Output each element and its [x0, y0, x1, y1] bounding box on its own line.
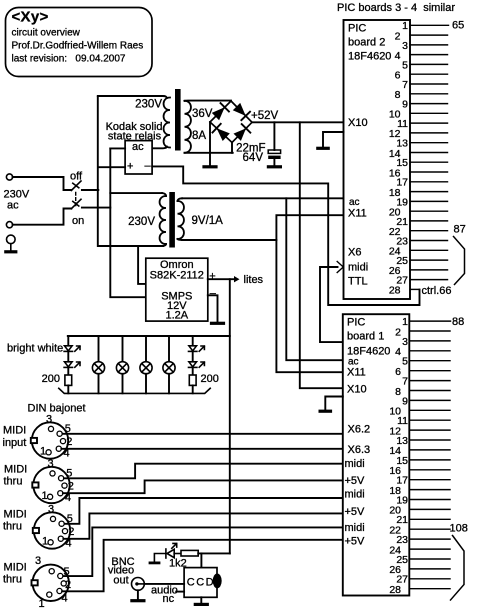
pin 17 line — [409, 479, 450, 481]
pin 3 line — [410, 44, 448, 46]
bracket pins 23-27 (board1) — [451, 536, 465, 601]
pin 1 line — [409, 320, 450, 322]
wire: branch T2 primary top — [110, 192, 162, 194]
svg-text:+5V: +5V — [345, 506, 366, 518]
svg-text:8: 8 — [395, 89, 401, 101]
pin 14 line — [409, 449, 450, 451]
pin 26 line — [409, 568, 450, 570]
wire: relay-ac-left rail (x=110) down to Omron input — [110, 148, 146, 297]
net: T2 sec bottom to board2 and board1 X11 (x=276) — [276, 215, 343, 372]
pin 16 line — [410, 171, 448, 173]
svg-text:CCD: CCD — [187, 577, 215, 589]
svg-text:2: 2 — [68, 526, 74, 538]
svg-text:–: – — [210, 288, 217, 300]
svg-text:ctrl.66: ctrl.66 — [422, 285, 452, 297]
ground under bridge — [204, 165, 216, 168]
svg-text:+52V: +52V — [251, 110, 279, 122]
DIN bajonet bracket — [59, 388, 210, 393]
svg-text:28: 28 — [389, 584, 401, 596]
resistor R3 1k2 — [181, 550, 198, 556]
resistor R1 200 — [65, 375, 72, 385]
svg-text:18F4620: 18F4620 — [348, 51, 391, 63]
svg-text:X10: X10 — [347, 384, 367, 396]
relay K1 box — [125, 141, 152, 174]
pin 15 line — [410, 161, 448, 163]
svg-text:4: 4 — [395, 50, 401, 62]
pin 25 line — [409, 558, 450, 560]
svg-text:230V: 230V — [135, 99, 162, 111]
pin 9 line — [410, 103, 448, 105]
pin 22 line — [409, 528, 450, 530]
pin 11 line — [409, 419, 450, 421]
connector J1 MIDI input (DIN-5) — [31, 414, 73, 460]
lamp L1 — [92, 336, 104, 393]
board1 ground stub — [325, 397, 343, 411]
svg-text:PIC: PIC — [347, 317, 365, 329]
pin 27 line — [409, 578, 450, 580]
wire: SMPS + output to lites arrow — [208, 278, 234, 280]
svg-text:+5V: +5V — [345, 475, 366, 487]
svg-text:87: 87 — [454, 224, 466, 236]
pin 1 line — [410, 24, 449, 26]
bridge diode D4 (bottom->right) — [234, 128, 247, 141]
svg-text:3: 3 — [46, 414, 52, 426]
svg-text:out: out — [113, 575, 128, 587]
lamp L2 — [116, 336, 128, 393]
svg-text:3: 3 — [48, 458, 54, 470]
pin 13 line — [409, 439, 450, 441]
transformer T1 primary winding 230V — [164, 98, 170, 148]
PIC board 1 (U1 18F4620) — [343, 314, 410, 595]
svg-text:8: 8 — [395, 386, 401, 398]
LED string right: wire — [192, 336, 194, 346]
pin 14 line — [410, 152, 448, 154]
wire: T1 secondary bottom to bridge AC2 — [185, 152, 233, 154]
svg-text:108: 108 — [450, 523, 468, 535]
svg-text:thru: thru — [4, 476, 23, 488]
svg-text:ac: ac — [132, 141, 144, 153]
pin 28 line — [410, 288, 420, 290]
pin 8 line — [409, 390, 450, 392]
pin 3 line — [409, 340, 450, 342]
svg-text:X6: X6 — [348, 247, 361, 259]
pin 2 line — [409, 330, 450, 332]
svg-text:6: 6 — [395, 366, 401, 378]
svg-text:8A: 8A — [192, 130, 206, 142]
svg-text:7: 7 — [402, 376, 408, 388]
wire: pole1 contact to phase rail — [82, 189, 98, 191]
svg-text:PIC boards 3 - 4 similar: PIC boards 3 - 4 similar — [337, 2, 455, 14]
svg-text:<Xy>: <Xy> — [12, 9, 49, 26]
svg-text:bright white: bright white — [7, 343, 63, 355]
pin 15 line — [409, 459, 450, 461]
svg-text:3: 3 — [48, 504, 54, 516]
wire: J3 pin5 to board1 midi — [65, 498, 343, 524]
svg-text:MIDI: MIDI — [4, 464, 27, 476]
bridge diode D2 (top->right) — [233, 103, 246, 116]
wire: bridge AC2 corner down — [231, 143, 233, 153]
wire: branch to Omron upper input — [138, 246, 146, 284]
wire: branch down to CCD top — [200, 553, 202, 567]
pin 10 line — [410, 112, 448, 114]
pin 23 line — [409, 538, 450, 540]
svg-text:Prof.Dr.Godfried-Willem Raes: Prof.Dr.Godfried-Willem Raes — [12, 41, 144, 52]
svg-text:64V: 64V — [243, 152, 264, 164]
svg-text:X6.2: X6.2 — [348, 424, 371, 436]
switch S1 pole 1 (off) — [71, 181, 81, 191]
svg-text:1: 1 — [42, 536, 48, 548]
svg-text:thru: thru — [3, 574, 22, 586]
wire: J4 pin4 to 1k2 line — [62, 540, 343, 592]
svg-text:midi: midi — [345, 458, 365, 470]
svg-text:last revision: 09.04.2007: last revision: 09.04.2007 — [12, 54, 126, 65]
transformer T1 core — [175, 89, 181, 151]
svg-text:9: 9 — [402, 99, 408, 111]
230V ac input terminal L — [6, 174, 12, 180]
wire: T2 secondary bottom to riser x276 — [182, 239, 276, 241]
BNC ground — [137, 590, 139, 600]
wire: J1 pin5 to board1 X6.2 — [63, 433, 343, 435]
svg-text:nc: nc — [163, 593, 175, 605]
pin 4 line — [409, 350, 450, 352]
pin 20 line — [410, 210, 448, 212]
pin 17 line — [410, 181, 448, 183]
+52V rail to PIC board 2 X10 — [252, 121, 344, 123]
connector J4 MIDI thru 3 (DIN-5) — [32, 555, 72, 610]
transformer T2 secondary winding 9V/1A — [178, 198, 183, 201]
svg-text:2: 2 — [395, 326, 401, 338]
net: board1 to board2 midi TTL link (x=320) — [320, 267, 343, 342]
pin 9 line — [409, 399, 450, 401]
wire: BNC to CCD video in — [144, 583, 184, 585]
pin 27 line — [410, 279, 448, 281]
arrowhead into board2 midi — [337, 262, 343, 273]
pin 19 line — [410, 200, 448, 202]
title box — [6, 8, 153, 77]
wire: terminal N to switch pole 2 — [13, 209, 72, 225]
pin 24 line — [410, 249, 448, 251]
wire: phase rail (x=98) top corner to T2 primary bottom — [98, 97, 163, 246]
pin 19 line — [409, 499, 450, 501]
svg-text:9V/1A: 9V/1A — [192, 215, 224, 227]
connector J2 MIDI thru 1 (DIN-5) — [32, 458, 74, 504]
ground for LED indicator — [150, 554, 166, 563]
svg-text:board 2: board 2 — [348, 37, 385, 49]
CCD camera box — [184, 568, 217, 598]
svg-text:88: 88 — [452, 316, 464, 328]
wire: terminal L to switch pole 1 — [13, 177, 72, 190]
pin 12 line — [410, 132, 448, 134]
wire: 1k2 to V1 corner — [198, 552, 230, 554]
svg-text:thru: thru — [3, 521, 22, 533]
svg-text:1: 1 — [402, 20, 408, 32]
PIC board 2 (U2 18F4620) — [344, 20, 411, 299]
wire: J2 pin4 to board1 +5V — [63, 480, 343, 493]
bridge diode D3 (bottom->left) — [217, 128, 230, 141]
pin 28 line — [409, 588, 450, 590]
svg-text:PIC: PIC — [348, 23, 366, 35]
svg-text:3: 3 — [402, 336, 408, 348]
svg-text:X11: X11 — [348, 208, 367, 220]
LED D8 — [189, 362, 205, 368]
svg-text:2: 2 — [65, 579, 71, 591]
diode bridge outline — [210, 101, 252, 143]
svg-text:5: 5 — [402, 59, 408, 71]
svg-text:+5V: +5V — [345, 536, 366, 548]
svg-text:2: 2 — [66, 436, 72, 448]
+12V lamp bus — [68, 335, 230, 337]
wire: J2 pin5 to board1 midi — [64, 464, 343, 479]
board2 ground stub at X10 — [323, 132, 344, 148]
LED D5 — [64, 346, 80, 352]
svg-text:midi: midi — [345, 522, 365, 534]
LED D6 — [64, 362, 80, 368]
switch coupling dashed link — [75, 193, 77, 207]
LED D7 — [189, 346, 205, 352]
svg-text:1: 1 — [42, 490, 48, 502]
wire: CCD bottom to ground — [200, 597, 202, 604]
svg-text:+: + — [209, 271, 215, 283]
svg-text:2: 2 — [395, 30, 401, 42]
pin 21 line — [410, 220, 448, 222]
pin 7 line — [409, 380, 450, 382]
svg-text:S82K-2112: S82K-2112 — [150, 269, 204, 281]
svg-text:1: 1 — [40, 446, 46, 458]
wire: T1 primary bottom to relay ac — [152, 147, 167, 149]
wire: J4 pin5 to board1 midi — [63, 527, 343, 576]
wire: top loop to T1 primary — [98, 96, 167, 98]
lamp L3 — [140, 336, 152, 393]
pin 11 line — [410, 122, 448, 124]
pin 8 line — [410, 93, 448, 95]
svg-text:65: 65 — [452, 20, 464, 32]
svg-text:TTL: TTL — [348, 276, 368, 288]
pin 18 line — [410, 191, 448, 193]
svg-text:ac: ac — [349, 197, 360, 208]
pin 5 line — [409, 360, 450, 362]
svg-text:230V: 230V — [128, 216, 155, 228]
wire: T2 secondary top to board2 X11 — [182, 197, 344, 199]
wire: relay - to ctrl.66 net — [152, 166, 419, 305]
pin 23 line — [410, 240, 448, 242]
pin 12 line — [409, 429, 450, 431]
net: +52V branch to board1 X10 (x=300) — [300, 122, 343, 388]
pin 26 line — [410, 269, 448, 271]
wire: relay + to phase rail — [98, 166, 125, 168]
svg-text:+: + — [127, 161, 133, 173]
wire: bridge minus corner to ground — [209, 122, 211, 166]
pin 4 line — [410, 54, 448, 56]
transformer T2 core — [169, 192, 175, 248]
svg-text:4: 4 — [395, 346, 401, 358]
svg-text:ac: ac — [7, 200, 19, 212]
svg-text:200: 200 — [42, 373, 60, 385]
lamp L4 — [163, 336, 175, 393]
pin 5 line — [410, 63, 448, 65]
svg-text:X10: X10 — [348, 117, 368, 129]
svg-text:200: 200 — [201, 373, 219, 385]
svg-text:2: 2 — [68, 481, 74, 493]
pin 20 line — [409, 508, 450, 510]
svg-text:X11: X11 — [347, 367, 366, 379]
svg-text:1: 1 — [402, 316, 408, 328]
mains earth symbol — [6, 235, 16, 252]
svg-text:DIN bajonet: DIN bajonet — [28, 403, 86, 415]
Omron S82K-2112 SMPS box — [146, 258, 208, 321]
svg-text:MIDI: MIDI — [3, 425, 26, 437]
pin 25 line — [410, 259, 448, 261]
svg-text:4: 4 — [62, 593, 68, 605]
wire: T1 secondary top to bridge AC1 — [185, 100, 232, 102]
svg-text:3: 3 — [402, 40, 408, 52]
wire: relay ac left to x110 rail — [110, 147, 125, 149]
V1 rail: SMPS+ down through bus to 1k2 line — [229, 279, 231, 553]
CCD lens — [213, 574, 222, 589]
pin 2 line — [410, 34, 448, 36]
svg-text:MIDI: MIDI — [4, 509, 27, 521]
svg-text:1.2A: 1.2A — [165, 309, 188, 321]
svg-text:5: 5 — [402, 356, 408, 368]
pin 16 line — [409, 469, 450, 471]
svg-text:–: – — [145, 160, 152, 172]
wire: audio nc stub — [176, 591, 184, 593]
capacitor C1 22mF 64V — [268, 122, 280, 167]
svg-text:6: 6 — [395, 70, 401, 82]
svg-text:input: input — [3, 437, 27, 449]
svg-text:36V: 36V — [192, 108, 213, 120]
transformer T1 secondary winding 36V 8A — [185, 101, 191, 153]
connector J3 MIDI thru 2 (DIN-5) — [33, 504, 75, 550]
transformer T2 primary winding 230V — [162, 193, 166, 196]
net: T2 sec top branch to board1 ac (x=286) — [286, 198, 343, 360]
svg-text:off: off — [70, 171, 83, 183]
wire: J3 pin4 to board1 +5V — [63, 513, 342, 538]
svg-text:9: 9 — [402, 395, 408, 407]
ground at SMPS minus — [212, 322, 224, 325]
pin 21 line — [409, 518, 450, 520]
pin 6 line — [410, 73, 448, 75]
LED D9 (series with 1k2) — [166, 543, 181, 558]
svg-text:circuit overview: circuit overview — [12, 28, 81, 39]
svg-text:board 1: board 1 — [347, 331, 384, 343]
LED string left: wire — [67, 336, 69, 346]
BNC connector — [132, 578, 145, 591]
230V ac input terminal N — [6, 222, 12, 228]
bridge diode D1 (left->top) — [212, 107, 225, 120]
svg-text:1: 1 — [39, 598, 45, 610]
svg-text:28: 28 — [389, 285, 401, 297]
wire: pole2 contact to node x110 — [82, 207, 110, 209]
resistor R2 200 — [189, 375, 196, 385]
svg-text:X6.3: X6.3 — [348, 444, 371, 456]
svg-text:midi: midi — [348, 262, 368, 274]
pin 22 line — [410, 230, 448, 232]
svg-text:3: 3 — [35, 555, 41, 567]
pin 6 line — [409, 370, 450, 372]
bracket pins 23-27 (board2) — [454, 237, 465, 285]
switch S1 pole 2 (on) — [71, 199, 81, 209]
wire: J1 pin4 to board1 X6.3 — [61, 448, 342, 450]
pin 7 line — [410, 83, 448, 85]
svg-text:7: 7 — [402, 79, 408, 91]
pin 13 line — [410, 142, 448, 144]
svg-text:midi: midi — [345, 489, 365, 501]
wire: SMPS - to ground — [208, 295, 218, 322]
pin 24 line — [409, 548, 450, 550]
svg-text:lites: lites — [244, 274, 264, 286]
pin 18 line — [409, 489, 450, 491]
pin 10 line — [409, 409, 450, 411]
svg-text:on: on — [72, 215, 84, 227]
svg-text:MIDI: MIDI — [4, 562, 27, 574]
